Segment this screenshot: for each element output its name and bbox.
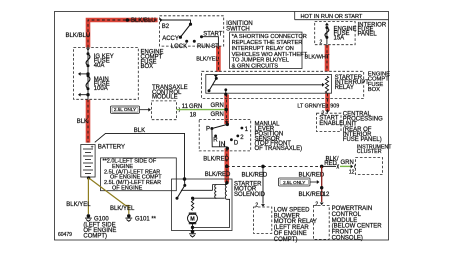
BLK wire battery to solenoid: [95, 128, 187, 181]
relay rail to coil: [213, 83, 325, 87]
svg-text:BLK/YEL: BLK/YEL: [66, 202, 91, 208]
svg-text:BATTERY: BATTERY: [98, 144, 125, 150]
wire BLK battery feed (highlighted): [86, 100, 91, 143]
svg-text:BLK/RED: BLK/RED: [299, 192, 325, 198]
svg-text:BLK/YEL: BLK/YEL: [110, 206, 135, 212]
svg-text:BLK/RED: BLK/RED: [205, 172, 231, 178]
svg-text:N: N: [221, 142, 225, 148]
solenoid pull-in circuit rail: [181, 185, 227, 191]
svg-text:COMPT): COMPT): [274, 237, 298, 243]
svg-text:100A: 100A: [94, 86, 108, 92]
relay output contact: [224, 88, 227, 96]
svg-text:2: 2: [255, 202, 258, 208]
arrow into MLP sensor: [225, 121, 229, 124]
wire label 11 GRN / 18: [182, 104, 203, 119]
wire GRN relay to MLP sensor (highlighted): [224, 94, 229, 124]
svg-text:G101 **: G101 **: [135, 216, 157, 222]
BLK/YEL wire to G100: [66, 178, 91, 214]
svg-text:P: P: [206, 126, 210, 132]
svg-text:909: 909: [330, 104, 339, 110]
relay contact arm: [208, 75, 218, 92]
junction on BLK/BLU wire: [126, 18, 130, 22]
svg-text:OF TRANSAXLE): OF TRANSAXLE): [255, 146, 303, 152]
ignition switch arm: [162, 20, 192, 39]
svg-text:LOCK: LOCK: [171, 44, 187, 50]
solenoid switch contact: [176, 179, 187, 200]
svg-text:GRN: GRN: [189, 104, 202, 110]
svg-text:CLUSTER: CLUSTER: [357, 149, 382, 155]
ground G101: [125, 214, 156, 222]
svg-text:40A: 40A: [94, 63, 105, 69]
svg-text:RELAY: RELAY: [335, 85, 354, 91]
svg-text:BLK/WHT: BLK/WHT: [305, 55, 330, 61]
svg-text:M: M: [190, 216, 195, 222]
wire LT GRN/YEL relay to start enable (highlighted): [325, 94, 330, 111]
svg-text:MODULE: MODULE: [152, 95, 178, 101]
svg-text:FUSE PANEL): FUSE PANEL): [343, 137, 382, 143]
svg-text:BLK/RED: BLK/RED: [242, 172, 268, 178]
fuse ENGINE 15A: [325, 23, 357, 45]
solenoid ground: [191, 230, 195, 234]
contact LOCK: [171, 40, 188, 50]
wire BLK/RED MLP to solenoid (highlighted): [225, 148, 230, 182]
branch wire with arrow (lower): [78, 93, 90, 97]
MLP contact 2: [236, 135, 244, 142]
solenoid coil 2: [225, 183, 227, 199]
svg-text:R: R: [213, 137, 218, 143]
svg-text:BLK: BLK: [134, 128, 145, 134]
battery note box: [101, 158, 177, 191]
svg-text:LT GRN/YEL: LT GRN/YEL: [297, 104, 328, 110]
wire labels GRN GRN at junction: [211, 103, 224, 118]
MLP contact N and path: [212, 129, 229, 151]
MLP contact R: [213, 135, 218, 144]
svg-text:BLK/BLU: BLK/BLU: [66, 33, 91, 39]
svg-text:12: 12: [323, 192, 330, 198]
manual lever position sensor box: [199, 120, 251, 151]
fuse IG KEY 40A: [86, 52, 114, 69]
dark red wire down to PCM: [320, 166, 324, 205]
battery negative junction: [87, 176, 90, 179]
wire BLK/YEL ignition ST to relay (highlighted): [216, 46, 221, 72]
hot-in-run-or-start header box: [295, 12, 389, 20]
transaxle control module box: [151, 101, 176, 120]
wire label BLK/RED 12: [299, 192, 331, 198]
battery symbol: [81, 144, 95, 177]
svg-text:2.5L ONLY: 2.5L ONLY: [283, 180, 305, 185]
relay inner box: [206, 75, 332, 94]
svg-text:GRN: GRN: [211, 103, 224, 109]
junction blower branch: [261, 165, 265, 169]
svg-text:18: 18: [190, 113, 197, 119]
relay coil: [325, 76, 328, 93]
svg-text:15A: 15A: [334, 35, 345, 41]
motor brush spring: [191, 199, 193, 211]
svg-text:& GRN CIRCUITS: & GRN CIRCUITS: [232, 64, 279, 70]
svg-text:60479: 60479: [58, 232, 72, 238]
contact RUN: [193, 40, 210, 50]
svg-text:+: +: [91, 144, 94, 149]
junction to PCM/cluster: [320, 165, 324, 169]
arrow into start enable: [326, 110, 330, 113]
svg-text:SOLENOID: SOLENOID: [234, 192, 266, 198]
svg-text:HOT IN RUN OR START: HOT IN RUN OR START: [301, 14, 363, 20]
engine compt fuse box (left): [74, 47, 139, 99]
svg-text:ENABLE: ENABLE: [319, 121, 343, 127]
instrument cluster box: [356, 158, 383, 175]
solenoid coil 1: [215, 185, 217, 199]
svg-text:BLK/RED: BLK/RED: [203, 157, 229, 163]
svg-text:2: 2: [315, 201, 318, 207]
svg-text:D: D: [234, 140, 239, 146]
svg-text:RUN: RUN: [197, 44, 210, 50]
ground G100: [85, 214, 109, 222]
BLK/YEL wire to G101: [90, 179, 136, 215]
svg-text:B2: B2: [162, 24, 170, 30]
start enable box (central processing unit): [317, 113, 341, 131]
starter motor M: [188, 213, 198, 224]
interior fuse panel box: [315, 22, 355, 45]
svg-text:G100: G100: [94, 216, 109, 222]
wire to instrument cluster with splice: [322, 164, 356, 169]
svg-text:2: 2: [320, 39, 323, 45]
wire to blower relay: [261, 166, 265, 206]
wire arrow into B2: [160, 18, 163, 22]
svg-text:COMPT): COMPT): [83, 233, 107, 239]
wire label LT GRN/YEL 909: [297, 104, 339, 110]
motor ground run: [191, 224, 194, 231]
junction green/red: [224, 108, 228, 112]
svg-text:2.5L ONLY: 2.5L ONLY: [114, 107, 136, 112]
svg-text:BLK/BLU: BLK/BLU: [131, 18, 156, 24]
svg-text:OF ENGINE: OF ENGINE: [112, 185, 143, 191]
fuse MAIN 100A: [86, 74, 110, 92]
powertrain control module box: [314, 205, 330, 239]
svg-text:BLK/RED: BLK/RED: [299, 172, 325, 178]
wire BLK/WHT fuse to relay coil (highlighted): [325, 45, 330, 71]
svg-text:ACCY: ACCY: [162, 36, 179, 42]
svg-text:BOX: BOX: [368, 87, 380, 93]
wire label BLK/RED (cluster): [324, 156, 339, 167]
solenoid S-terminal junction: [225, 181, 228, 184]
wire into fuse box: [86, 48, 90, 99]
starter motor solenoid box: [172, 179, 233, 231]
diagram frame border: [55, 12, 389, 241]
junction MLP wire / horizontal run: [225, 165, 229, 169]
wire BLK/BLU battery-to-ignition (highlighted): [88, 20, 158, 48]
contact START / ST terminal: [200, 31, 223, 50]
low speed blower motor relay box: [254, 207, 272, 233]
ignition switch box: [160, 16, 224, 46]
svg-text:12: 12: [349, 169, 355, 175]
svg-text:ST: ST: [211, 44, 219, 50]
svg-text:GRN: GRN: [341, 160, 354, 166]
2.5L ONLY callout box (upper): [111, 106, 151, 113]
MLP contact 1: [241, 127, 249, 133]
solenoid motor rail: [191, 197, 225, 200]
note box: shorting connector: [230, 32, 308, 70]
starter interrupt relay dashed enclosure: [202, 71, 364, 98]
MLP contact D: [230, 138, 239, 146]
svg-text:CONSOLE): CONSOLE): [332, 236, 363, 242]
MLP selector arm P: [206, 123, 229, 133]
svg-text:BOX: BOX: [141, 64, 154, 70]
svg-text:11: 11: [182, 104, 189, 110]
dashed BLK/RED horizontal wire: [227, 165, 322, 167]
svg-text:BLK/YEL: BLK/YEL: [196, 56, 218, 62]
svg-text:BLK: BLK: [77, 119, 88, 125]
coil return wire: [193, 199, 230, 227]
2.5L ONLY callout box (lower): [279, 178, 320, 186]
green wire TCM to junction: [177, 107, 225, 112]
svg-text:GRN: GRN: [211, 112, 224, 118]
svg-text:PANEL: PANEL: [358, 32, 378, 38]
branch wire with arrow (upper): [78, 72, 90, 76]
